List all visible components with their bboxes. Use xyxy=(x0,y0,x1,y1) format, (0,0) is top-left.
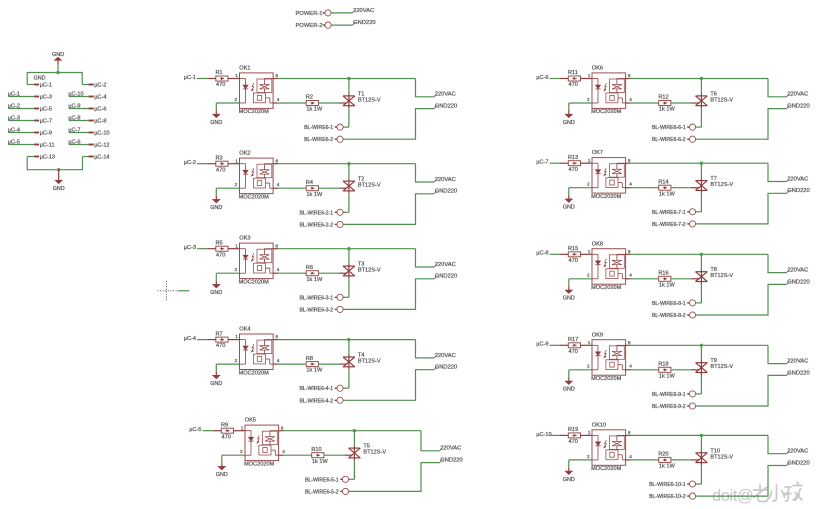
wire triac MT1 to BL-WIRE6-10-1 xyxy=(700,465,702,484)
wire BL-WIRE6-9-2 to GND220 rail xyxy=(696,375,787,406)
svg-text:220VAC: 220VAC xyxy=(353,8,374,14)
svg-text:µC-11: µC-11 xyxy=(40,143,55,149)
wire R18 to triac gate xyxy=(671,369,692,371)
net GND220 xyxy=(440,460,443,463)
triac T3 xyxy=(343,264,355,279)
wire µC-1 to R1 xyxy=(197,78,207,80)
svg-text:1k 1W: 1k 1W xyxy=(659,464,676,470)
wire opto pin4 to R14 xyxy=(626,187,631,189)
svg-text:µC-4: µC-4 xyxy=(94,95,106,101)
wire junction to triac MT2 xyxy=(353,431,355,446)
svg-text:µC-7: µC-7 xyxy=(40,119,52,125)
svg-text:BL-WIRE6-1: BL-WIRE6-1 xyxy=(304,125,333,131)
svg-text:470: 470 xyxy=(569,82,578,88)
svg-text:2: 2 xyxy=(240,449,243,455)
wire µC-3 to R5 xyxy=(197,248,207,250)
wire µC-1 xyxy=(9,96,35,98)
resistor R10 1k 1W xyxy=(312,453,324,458)
wire triac MT1 to BL-WIRE6-9-1 xyxy=(700,375,702,394)
wire 220VAC stub xyxy=(416,164,435,182)
svg-text:BL-WIRE6-4-1: BL-WIRE6-4-1 xyxy=(299,386,333,392)
svg-text:2: 2 xyxy=(587,364,590,370)
wire µC-5 to R9 xyxy=(203,430,213,432)
svg-text:GND220: GND220 xyxy=(440,458,463,464)
junction xyxy=(700,434,703,437)
svg-text:1k 1W: 1k 1W xyxy=(306,368,323,374)
svg-text:µC-5: µC-5 xyxy=(189,427,201,433)
wire opto pin2 to GND xyxy=(216,102,239,104)
svg-text:R2: R2 xyxy=(306,95,313,101)
wire junction to triac MT2 xyxy=(700,79,702,94)
wire triac MT1 to BL-WIRE6-4-1 xyxy=(348,369,350,388)
wire POWER-2 to GND220 xyxy=(331,24,352,26)
svg-text:BL-WIRE6-6-1: BL-WIRE6-6-1 xyxy=(652,125,686,131)
wire opto pin4 to R16 xyxy=(626,278,631,280)
svg-text:OK9: OK9 xyxy=(592,332,603,338)
wire junction to triac MT2 xyxy=(700,163,702,178)
svg-text:220VAC: 220VAC xyxy=(435,353,456,359)
svg-text:4: 4 xyxy=(277,182,280,188)
svg-text:1k 1W: 1k 1W xyxy=(659,282,676,288)
svg-text:GND220: GND220 xyxy=(787,104,810,110)
svg-text:GND220: GND220 xyxy=(435,104,458,110)
svg-text:1k 1W: 1k 1W xyxy=(312,459,329,465)
net 220VAC xyxy=(434,355,437,358)
svg-text:OK10: OK10 xyxy=(592,422,606,428)
wire µC-5 xyxy=(9,144,35,146)
resistor R3 470 xyxy=(216,161,228,166)
svg-text:R6: R6 xyxy=(306,265,313,271)
resistor R18 1k 1W xyxy=(659,367,671,372)
ground xyxy=(215,111,217,115)
svg-text:R13: R13 xyxy=(568,155,578,161)
wire opto pin4 to R12 xyxy=(626,102,631,104)
ground xyxy=(568,286,570,290)
svg-text:R10: R10 xyxy=(311,447,321,453)
svg-text:BL-WIRE6-5-2: BL-WIRE6-5-2 xyxy=(305,489,339,495)
svg-text:µC-13: µC-13 xyxy=(40,155,55,161)
svg-text:GND: GND xyxy=(210,205,222,211)
wire BL-WIRE6-10-2 to GND220 rail xyxy=(696,466,787,497)
svg-text:470: 470 xyxy=(216,167,225,173)
svg-text:BL-WIRE6-2-2: BL-WIRE6-2-2 xyxy=(299,222,333,228)
svg-text:220VAC: 220VAC xyxy=(435,262,456,268)
ground xyxy=(568,195,570,199)
wire µC-9 to R17 xyxy=(550,344,560,346)
svg-text:OK3: OK3 xyxy=(239,236,250,242)
junction xyxy=(353,429,356,432)
optocoupler OK1 xyxy=(240,73,274,109)
wire opto pin6 to 220VAC rail xyxy=(626,253,631,255)
svg-text:BL-WIRE6-8-2: BL-WIRE6-8-2 xyxy=(652,313,686,319)
net 220VAC xyxy=(434,264,437,267)
junction xyxy=(700,77,703,80)
svg-text:470: 470 xyxy=(216,82,225,88)
wire junction to GND xyxy=(58,170,60,177)
svg-text:µC-9: µC-9 xyxy=(536,342,548,348)
net 220VAC xyxy=(434,179,437,182)
junction xyxy=(700,162,703,165)
svg-text:220VAC: 220VAC xyxy=(440,446,461,452)
svg-text:POWER-1: POWER-1 xyxy=(295,11,322,17)
svg-text:R12: R12 xyxy=(658,95,668,101)
svg-text:1: 1 xyxy=(235,158,238,164)
svg-text:R20: R20 xyxy=(658,452,668,458)
triac T9 xyxy=(696,360,708,375)
resistor R12 1k 1W xyxy=(659,101,671,106)
svg-text:2: 2 xyxy=(587,182,590,188)
svg-text:1: 1 xyxy=(241,425,244,431)
wire triac MT1 to BL-WIRE6-2-1 xyxy=(348,193,350,212)
ground (bottom) xyxy=(58,177,60,181)
svg-text:GND: GND xyxy=(563,296,575,302)
wire junction to triac MT2 xyxy=(348,249,350,264)
svg-text:BL-WIRE6-3-1: BL-WIRE6-3-1 xyxy=(299,295,333,301)
wire BL-WIRE6-2-2 to GND220 rail xyxy=(343,194,434,225)
net GND220 xyxy=(434,106,437,109)
svg-text:R9: R9 xyxy=(221,422,228,428)
junction xyxy=(56,71,59,74)
svg-text:2: 2 xyxy=(235,182,238,188)
net 220VAC xyxy=(787,94,790,97)
svg-text:2: 2 xyxy=(235,267,238,273)
net 220VAC xyxy=(434,94,437,97)
ground xyxy=(215,372,217,376)
svg-text:2: 2 xyxy=(587,273,590,279)
wire 220VAC stub xyxy=(416,340,435,358)
svg-text:BT12S-V: BT12S-V xyxy=(710,182,733,188)
net 220VAC xyxy=(787,451,790,454)
svg-text:GND220: GND220 xyxy=(435,189,458,195)
triac T5 xyxy=(349,446,361,461)
svg-text:MOC2020M: MOC2020M xyxy=(244,461,274,467)
connector pin µC-7 xyxy=(34,120,39,122)
wire R17 to opto pin1 xyxy=(581,344,593,346)
wire µC-2 xyxy=(9,108,35,110)
svg-text:OK8: OK8 xyxy=(592,241,603,247)
svg-text:MOC2020M: MOC2020M xyxy=(591,376,621,382)
wire opto pin6 to 220VAC rail xyxy=(279,430,284,432)
connector pin µC-5 xyxy=(34,108,39,110)
svg-text:BL-WIRE6-7-1: BL-WIRE6-7-1 xyxy=(652,210,686,216)
net 220VAC xyxy=(787,270,790,273)
wire 220VAC stub xyxy=(416,79,435,97)
wire BL-WIRE6-8-2 to GND220 rail xyxy=(696,284,787,315)
wire POWER-1 to 220VAC xyxy=(331,12,352,14)
wire R20 to triac gate xyxy=(671,459,692,461)
svg-text:OK1: OK1 xyxy=(239,66,250,72)
svg-text:1: 1 xyxy=(588,430,591,436)
wire BL-WIRE6-7-2 to GND220 rail xyxy=(696,193,787,224)
svg-text:µC-1: µC-1 xyxy=(40,83,52,89)
wire R1 to opto pin1 xyxy=(228,78,240,80)
wire µC-3 xyxy=(9,120,35,122)
svg-text:GND220: GND220 xyxy=(435,274,458,280)
svg-text:2: 2 xyxy=(587,97,590,103)
wire R5 to opto pin1 xyxy=(228,248,240,250)
svg-text:4: 4 xyxy=(277,267,280,273)
wire R4 to triac gate xyxy=(318,187,339,189)
svg-text:R14: R14 xyxy=(658,179,668,185)
svg-text:GND: GND xyxy=(210,120,222,126)
wire R16 to triac gate xyxy=(671,278,692,280)
svg-text:GND220: GND220 xyxy=(787,279,810,285)
wire BL-WIRE6-4-2 to GND220 rail xyxy=(343,370,434,401)
svg-text:BL-WIRE6-8-1: BL-WIRE6-8-1 xyxy=(652,301,686,307)
wire triac MT1 to BL-WIRE6-8-1 xyxy=(700,284,702,303)
wire junction to triac MT2 xyxy=(348,340,350,355)
wire BL-WIRE6-2 to GND220 rail xyxy=(343,109,434,140)
connector pin µC-9 xyxy=(34,132,39,134)
svg-text:4: 4 xyxy=(629,454,632,460)
ground xyxy=(568,467,570,471)
svg-text:BL-WIRE6-4-2: BL-WIRE6-4-2 xyxy=(299,398,333,404)
wire 220VAC stub xyxy=(768,345,787,363)
svg-text:GND220: GND220 xyxy=(787,460,810,466)
svg-text:µC-1: µC-1 xyxy=(184,75,196,81)
wire R11 to opto pin1 xyxy=(581,78,593,80)
svg-text:µC-8: µC-8 xyxy=(94,119,106,125)
svg-text:BT12S-V: BT12S-V xyxy=(710,97,733,103)
net GND220 xyxy=(787,190,790,193)
svg-text:R16: R16 xyxy=(658,271,668,277)
net GND220 xyxy=(787,106,790,109)
svg-text:µC-6: µC-6 xyxy=(536,75,548,81)
optocoupler OK10 xyxy=(592,430,626,466)
net GND220 xyxy=(787,463,790,466)
wire triac MT1 to BL-WIRE6-6-1 xyxy=(700,108,702,127)
resistor R17 470 xyxy=(568,343,580,348)
wire opto pin4 to R10 xyxy=(279,454,284,456)
triac T6 xyxy=(696,93,708,108)
svg-text:1k 1W: 1k 1W xyxy=(306,107,323,113)
svg-text:R7: R7 xyxy=(216,331,223,337)
svg-text:BL-WIRE6-3-2: BL-WIRE6-3-2 xyxy=(299,307,333,313)
svg-text:BT12S-V: BT12S-V xyxy=(710,273,733,279)
svg-text:4: 4 xyxy=(277,97,280,103)
wire R9 to opto pin1 xyxy=(234,430,246,432)
svg-text:1: 1 xyxy=(588,249,591,255)
svg-text:470: 470 xyxy=(569,258,578,264)
svg-text:1: 1 xyxy=(235,243,238,249)
resistor R19 470 xyxy=(568,433,580,438)
svg-text:220VAC: 220VAC xyxy=(787,449,808,455)
svg-text:OK6: OK6 xyxy=(592,66,603,72)
svg-text:µC-10: µC-10 xyxy=(94,131,109,137)
wire stub xyxy=(178,290,190,292)
connector pin µC-4 xyxy=(89,96,94,98)
ground xyxy=(568,377,570,381)
net 220VAC xyxy=(787,361,790,364)
svg-text:MOC2020M: MOC2020M xyxy=(591,466,621,472)
net GND220 xyxy=(353,22,356,25)
svg-text:220VAC: 220VAC xyxy=(787,92,808,98)
svg-text:R1: R1 xyxy=(216,70,223,76)
wire µC-8 to R15 xyxy=(550,253,560,255)
svg-text:GND220: GND220 xyxy=(787,370,810,376)
svg-text:GND: GND xyxy=(563,387,575,393)
svg-text:µC-10: µC-10 xyxy=(536,432,551,438)
wire R10 to triac gate xyxy=(324,454,345,456)
junction xyxy=(57,168,60,171)
svg-text:BL-WIRE6-7-2: BL-WIRE6-7-2 xyxy=(652,222,686,228)
wire opto pin4 to R2 xyxy=(273,102,278,104)
junction xyxy=(347,338,350,341)
svg-text:BL-WIRE6-10-2: BL-WIRE6-10-2 xyxy=(649,494,686,500)
net GND220 xyxy=(434,191,437,194)
svg-text:1k 1W: 1k 1W xyxy=(306,277,323,283)
wire connector bottom rail xyxy=(27,157,82,170)
svg-text:µC-2: µC-2 xyxy=(94,83,106,89)
svg-text:µC-5: µC-5 xyxy=(40,107,52,113)
svg-text:GND: GND xyxy=(563,205,575,211)
resistor R4 1k 1W xyxy=(306,186,318,191)
svg-text:µC-2: µC-2 xyxy=(184,160,196,166)
wire junction to triac MT2 xyxy=(348,79,350,94)
svg-text:R18: R18 xyxy=(658,362,668,368)
svg-text:220VAC: 220VAC xyxy=(787,176,808,182)
resistor R6 1k 1W xyxy=(306,271,318,276)
svg-text:1: 1 xyxy=(588,340,591,346)
svg-text:GND: GND xyxy=(210,290,222,296)
wire opto pin6 to 220VAC rail xyxy=(626,344,631,346)
wire opto pin6 to 220VAC rail xyxy=(626,78,631,80)
connector pin µC-13 xyxy=(27,156,34,158)
resistor R2 1k 1W xyxy=(306,101,318,106)
svg-text:MOC2020M: MOC2020M xyxy=(591,285,621,291)
svg-text:220VAC: 220VAC xyxy=(787,268,808,274)
wire 220VAC stub xyxy=(768,254,787,272)
connector pin µC-11 xyxy=(34,144,39,146)
svg-text:470: 470 xyxy=(216,343,225,349)
wire µC-2 to R3 xyxy=(197,163,207,165)
wire junction to triac MT2 xyxy=(700,254,702,269)
svg-text:R11: R11 xyxy=(568,70,578,76)
svg-text:BT12S-V: BT12S-V xyxy=(358,359,381,365)
wire R19 to opto pin1 xyxy=(581,434,593,436)
resistor R5 470 xyxy=(216,246,228,251)
junction xyxy=(347,247,350,250)
resistor R15 470 xyxy=(568,252,580,257)
svg-text:470: 470 xyxy=(222,434,231,440)
wire triac MT1 to BL-WIRE6-1 xyxy=(348,108,350,127)
optocoupler OK3 xyxy=(240,243,274,279)
wire µC-7 to R13 xyxy=(550,162,560,164)
wire opto pin4 to R20 xyxy=(626,459,631,461)
optocoupler OK7 xyxy=(592,158,626,194)
wire triac MT1 to BL-WIRE6-3-1 xyxy=(348,278,350,297)
wire BL-WIRE6-3-2 to GND220 rail xyxy=(343,279,434,310)
wire 220VAC stub xyxy=(768,79,787,97)
svg-text:1k 1W: 1k 1W xyxy=(659,191,676,197)
optocoupler OK6 xyxy=(592,73,626,109)
wire R14 to triac gate xyxy=(671,187,692,189)
net GND220 xyxy=(787,373,790,376)
optocoupler OK4 xyxy=(240,334,274,370)
optocoupler OK2 xyxy=(240,158,274,194)
svg-text:BT12S-V: BT12S-V xyxy=(358,268,381,274)
svg-text:4: 4 xyxy=(282,449,285,455)
wire opto pin4 to R6 xyxy=(273,272,278,274)
wire opto pin2 to GND xyxy=(569,459,592,461)
net GND220 xyxy=(787,282,790,285)
resistor R14 1k 1W xyxy=(659,185,671,190)
connector pin µC-1 xyxy=(27,84,34,86)
wire µC-4 xyxy=(9,132,35,134)
svg-text:R17: R17 xyxy=(568,337,578,343)
wire 220VAC stub xyxy=(421,431,440,451)
svg-text:BT12S-V: BT12S-V xyxy=(710,454,733,460)
svg-text:µC-3: µC-3 xyxy=(40,95,52,101)
wire R7 to opto pin1 xyxy=(228,339,240,341)
wire 220VAC stub xyxy=(416,249,435,267)
wire junction to triac MT2 xyxy=(348,164,350,179)
svg-text:BL-WIRE6-5-1: BL-WIRE6-5-1 xyxy=(305,477,339,483)
resistor R7 470 xyxy=(216,337,228,342)
triac T10 xyxy=(696,450,708,465)
svg-text:1k 1W: 1k 1W xyxy=(659,373,676,379)
wire µC-4 to R7 xyxy=(197,339,207,341)
resistor R8 1k 1W xyxy=(306,362,318,367)
wire opto pin4 to R4 xyxy=(273,187,278,189)
watermark CJK glyphs xyxy=(754,482,803,502)
junction xyxy=(700,344,703,347)
wire µC-9 xyxy=(69,108,89,110)
svg-text:GND220: GND220 xyxy=(435,365,458,371)
svg-text:R15: R15 xyxy=(568,246,578,252)
svg-text:BL-WIRE6-10-1: BL-WIRE6-10-1 xyxy=(649,482,686,488)
wire µC-6 to R11 xyxy=(550,78,560,80)
svg-text:µC-3: µC-3 xyxy=(184,245,196,251)
resistor R16 1k 1W xyxy=(659,276,671,281)
wire R3 to opto pin1 xyxy=(228,163,240,165)
wire GND to connector xyxy=(57,64,59,73)
ground xyxy=(221,463,223,467)
wire R8 to triac gate xyxy=(318,363,339,365)
triac T2 xyxy=(343,179,355,194)
svg-text:OK2: OK2 xyxy=(239,151,250,157)
connector pin µC-12 xyxy=(89,144,94,146)
wire opto pin2 to GND xyxy=(569,278,592,280)
svg-text:2: 2 xyxy=(235,97,238,103)
wire µC-7 xyxy=(69,132,89,134)
svg-text:BL-WIRE6-9-1: BL-WIRE6-9-1 xyxy=(652,392,686,398)
svg-text:R3: R3 xyxy=(216,155,223,161)
svg-text:2: 2 xyxy=(235,358,238,364)
connector pin µC-10 xyxy=(89,132,94,134)
wire junction to triac MT2 xyxy=(700,435,702,450)
wire opto pin6 to 220VAC rail xyxy=(273,248,278,250)
wire triac MT1 to BL-WIRE6-7-1 xyxy=(700,193,702,212)
svg-text:GND220: GND220 xyxy=(353,20,376,26)
svg-text:1: 1 xyxy=(588,73,591,79)
svg-text:µC-12: µC-12 xyxy=(94,143,109,149)
svg-text:BT12S-V: BT12S-V xyxy=(363,450,386,456)
svg-text:OK5: OK5 xyxy=(245,418,256,424)
wire R15 to opto pin1 xyxy=(581,253,593,255)
svg-text:GND220: GND220 xyxy=(787,188,810,194)
svg-text:GND: GND xyxy=(53,186,65,192)
svg-text:OK4: OK4 xyxy=(239,327,250,333)
wire 220VAC stub xyxy=(768,163,787,181)
svg-text:2: 2 xyxy=(587,454,590,460)
svg-text:1: 1 xyxy=(235,73,238,79)
svg-text:470: 470 xyxy=(569,167,578,173)
wire triac MT1 to BL-WIRE6-5-1 xyxy=(353,460,355,479)
connector pin µC-6 xyxy=(89,108,94,110)
junction xyxy=(347,162,350,165)
svg-text:MOC2020M: MOC2020M xyxy=(591,109,621,115)
